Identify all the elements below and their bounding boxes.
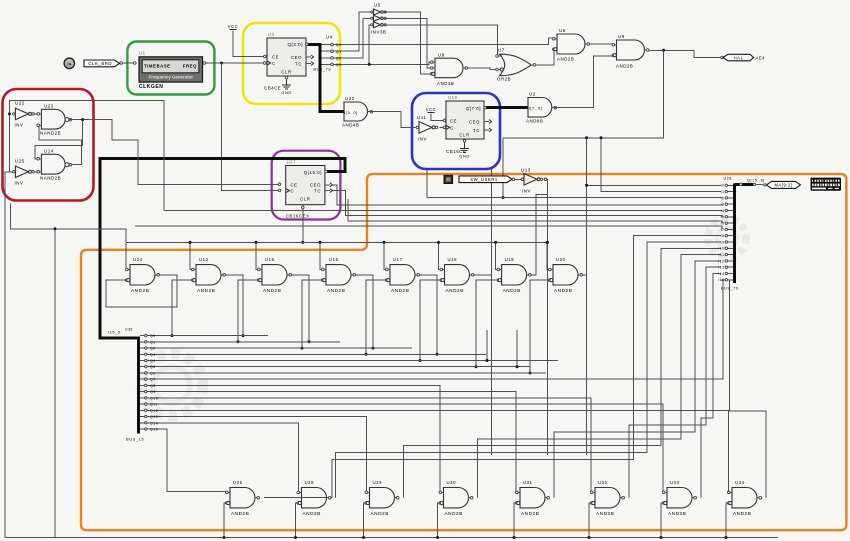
svg-text:Q0: Q0 <box>336 43 342 47</box>
svg-text:VCC: VCC <box>426 107 437 112</box>
svg-text:AND2B: AND2B <box>131 288 149 293</box>
wire U18 output to long vertical <box>473 274 492 276</box>
wire thick bus U10 Q[7:0] to U2 input <box>484 106 528 109</box>
bus tap block U35 BUS_15 left column <box>137 336 140 433</box>
svg-text:Q8: Q8 <box>150 384 156 388</box>
svg-text:Q7: Q7 <box>150 378 156 382</box>
ground symbol for U10 CLR <box>464 139 466 144</box>
wire thick bus right column to MA pin <box>735 183 754 186</box>
svg-text:U9: U9 <box>618 34 625 39</box>
svg-text:U19: U19 <box>505 257 515 262</box>
svg-text:U11: U11 <box>417 115 426 120</box>
nand-gate U14 NAND2B <box>41 154 65 174</box>
svg-text:U30: U30 <box>447 480 457 485</box>
svg-text:AND2B: AND2B <box>263 288 281 293</box>
middle AND gate row <box>126 265 160 285</box>
wire clock junction down to U27 C input <box>222 63 280 190</box>
wire U7 output to U6 input 2 <box>536 49 556 65</box>
svg-text:U32: U32 <box>598 480 608 485</box>
svg-text:Frequency Generator: Frequency Generator <box>149 75 194 80</box>
wire feeder down to bus tap I0 <box>587 138 721 186</box>
svg-text:U35: U35 <box>125 328 133 332</box>
svg-text:U14: U14 <box>44 149 54 154</box>
wire thick bus tap spine U4 down to U32 AND4B input <box>320 43 344 112</box>
wire U25 output to U14 input 2 <box>33 171 38 173</box>
wire U19 output to midband L5 <box>530 195 548 275</box>
svg-text:INV3B: INV3B <box>371 30 386 35</box>
wire inverted clock vertical to bottom rail <box>54 229 56 538</box>
svg-text:AND2B: AND2B <box>446 288 464 293</box>
svg-text:CE: CE <box>450 118 457 123</box>
svg-text:I7: I7 <box>721 228 725 232</box>
svg-text:U28: U28 <box>724 177 732 181</box>
wire Q2 line <box>147 347 412 349</box>
svg-text:Q15: Q15 <box>150 427 158 431</box>
svg-text:Q4: Q4 <box>150 359 156 363</box>
svg-text:AND2B: AND2B <box>327 288 345 293</box>
wire inverter U5a output to U8 input 3 <box>390 12 431 74</box>
wire clock from CLK_BRD pin to U1 <box>120 62 135 64</box>
orange highlight box (register array) <box>81 174 846 530</box>
inverter U13 INV <box>521 174 543 186</box>
svg-text:CLKGEN: CLKGEN <box>139 84 163 90</box>
wire midband line L5 <box>348 199 722 223</box>
svg-text:NAND2B: NAND2B <box>40 131 61 136</box>
wire U20 output to long vertical <box>581 274 586 276</box>
svg-text:Q2: Q2 <box>336 57 342 61</box>
or-gate U7 OR2B <box>500 54 532 75</box>
svg-text:AND2B: AND2B <box>503 288 521 293</box>
svg-text:CLK_BRD: CLK_BRD <box>88 61 112 66</box>
svg-text:U31: U31 <box>523 480 533 485</box>
svg-text:U33: U33 <box>670 480 680 485</box>
wire bus tap Q0 to U6 input <box>334 38 556 45</box>
svg-text:AND2B: AND2B <box>733 511 751 516</box>
wire feeder down to bus tap I1 <box>601 138 721 192</box>
svg-text:U23: U23 <box>44 104 54 109</box>
wire rail drops to middle gate clock inputs <box>125 242 128 269</box>
wire midband line L3 to tap I4 <box>164 209 722 211</box>
wire long vertical x=587 lower part <box>586 185 588 455</box>
wire feedback loop of middle gate U24 <box>106 275 177 307</box>
wire inverter U11 output to U10 C <box>440 126 445 128</box>
svg-text:I[7..0]: I[7..0] <box>529 106 543 111</box>
svg-text:Q[7:0]: Q[7:0] <box>466 106 481 111</box>
wire bottom clock rail <box>5 537 778 539</box>
svg-text:Q5: Q5 <box>150 365 156 369</box>
svg-text:CLR: CLR <box>459 133 469 138</box>
svg-text:Q11: Q11 <box>150 403 158 407</box>
wire clock rail for middle AND gates <box>126 241 548 243</box>
counter U27 CB16CEX <box>286 166 325 205</box>
wire inverter U5b output to U8 input 2 <box>390 18 431 68</box>
and-gate U2 AND8B reduction with bus input <box>528 98 552 118</box>
svg-text:Q10: Q10 <box>150 396 158 400</box>
svg-text:AND2B: AND2B <box>371 511 389 516</box>
svg-text:AND2B: AND2B <box>596 511 614 516</box>
wire risers to U18 U19 U20 second inputs <box>420 280 441 360</box>
ground symbol for U3 CLR <box>286 76 288 80</box>
svg-text:AE4: AE4 <box>756 55 766 60</box>
wire Q15 line to U26 input <box>147 429 227 492</box>
svg-text:AND2B: AND2B <box>445 511 463 516</box>
wire U23 output staircase to U27 CE <box>73 120 280 185</box>
purple highlight box (CB16CEX counter) <box>272 151 341 220</box>
svg-text:GND: GND <box>459 154 470 159</box>
wire left vertical net A to bottom rail <box>5 172 10 538</box>
svg-text:AND2B: AND2B <box>521 511 539 516</box>
svg-text:AND4B: AND4B <box>342 123 359 128</box>
svg-text:CB16CEX: CB16CEX <box>286 213 310 218</box>
svg-text:I12: I12 <box>718 259 724 263</box>
output pin HA1 with location AE4 <box>723 54 754 61</box>
svg-text:U16: U16 <box>265 257 275 262</box>
wire bus tap Q2 to inverter U5b <box>334 18 371 58</box>
svg-text:INV: INV <box>15 123 24 128</box>
svg-text:Q[3:0]: Q[3:0] <box>287 42 303 47</box>
svg-text:I9: I9 <box>721 240 725 244</box>
svg-text:CE: CE <box>272 54 279 59</box>
wire U8 output to U7 input 2 <box>466 68 497 70</box>
wire Q1 line <box>147 341 340 343</box>
wire bottom rail risers to gate clock inputs <box>224 503 227 538</box>
svg-text:C: C <box>450 125 454 130</box>
svg-text:U12: U12 <box>199 257 209 262</box>
svg-text:U10: U10 <box>448 95 458 100</box>
svg-text:I8: I8 <box>721 234 725 238</box>
svg-text:U13: U13 <box>521 168 531 173</box>
wire long vertical x=492 <box>491 169 493 455</box>
svg-text:U18: U18 <box>448 257 458 262</box>
svg-text:I1: I1 <box>721 190 725 194</box>
svg-text:Q14: Q14 <box>150 421 158 425</box>
svg-text:Q0: Q0 <box>150 334 156 338</box>
svg-text:AND3B: AND3B <box>437 81 454 86</box>
svg-text:NAND2B: NAND2B <box>40 176 61 181</box>
bottom AND gate row <box>226 488 260 508</box>
svg-text:OR2B: OR2B <box>497 77 511 82</box>
block U1 CLKGEN frequency generator <box>139 57 203 82</box>
input pin CLK_BRD <box>84 60 120 67</box>
svg-text:Q3: Q3 <box>150 353 156 357</box>
wire Q11 line to U33 input <box>147 404 664 492</box>
blue highlight box (CB16CE counter) <box>412 93 500 169</box>
wire U14 cross-couple to U23 input 2 <box>38 125 81 164</box>
wire middle gates U12 U16 U15 U17 output and input ties to Q lines <box>224 275 243 336</box>
svg-text:C: C <box>291 188 295 193</box>
svg-text:BUS_7S: BUS_7S <box>721 287 739 291</box>
wire bus tap Q3 to inverter U5c and U8 input <box>334 62 432 64</box>
svg-text:U22: U22 <box>15 101 25 106</box>
wire Q5 line <box>147 366 530 368</box>
svg-text:BUS_15: BUS_15 <box>126 437 144 442</box>
svg-text:Q[15..8]: Q[15..8] <box>747 178 765 182</box>
svg-text:INV: INV <box>418 137 427 142</box>
wire Q13 line to U29 input <box>147 417 367 492</box>
svg-text:TC: TC <box>473 128 480 133</box>
svg-text:I15: I15 <box>718 278 724 282</box>
wire NAND latch: U22 output to U23 input 1 <box>33 113 38 115</box>
svg-text:FREQ: FREQ <box>183 63 197 68</box>
and-gate U8 AND3B2 <box>431 58 468 77</box>
wire Q4 line <box>147 360 558 362</box>
svg-text:Q[15:0]: Q[15:0] <box>304 170 322 175</box>
wire midband line L2 from U27 CEO <box>332 185 723 205</box>
wire thick bus U3 Q[3:0] to tap block U4 <box>306 43 320 46</box>
svg-text:Q13: Q13 <box>150 415 158 419</box>
svg-text:AND2B: AND2B <box>616 64 633 69</box>
wire U27 CLR down to rail <box>302 205 304 242</box>
svg-text:I11: I11 <box>719 253 725 257</box>
svg-text:VCC: VCC <box>228 24 239 29</box>
svg-text:MA[9:2]: MA[9:2] <box>775 183 793 188</box>
svg-text:CB4CE: CB4CE <box>264 86 281 91</box>
svg-text:U8: U8 <box>438 53 445 58</box>
svg-text:U17: U17 <box>393 257 403 262</box>
svg-text:CLR: CLR <box>281 70 291 75</box>
counter U10 CB16CE <box>446 101 484 139</box>
svg-text:CEO: CEO <box>291 55 302 60</box>
svg-text:U15: U15 <box>329 257 339 262</box>
svg-text:U1: U1 <box>139 51 146 56</box>
svg-text:TC: TC <box>295 61 302 66</box>
wire U6 output to U9 input 1 <box>590 43 614 45</box>
svg-text:U25: U25 <box>15 159 25 164</box>
svg-text:CEO: CEO <box>310 182 321 187</box>
svg-text:Q3: Q3 <box>336 63 342 67</box>
svg-text:I2: I2 <box>721 196 725 200</box>
wire VCC to U3 CE <box>233 31 265 57</box>
svg-text:HA1: HA1 <box>734 55 744 60</box>
and-gate U9 AND2B1 <box>612 40 649 60</box>
svg-text:U29: U29 <box>373 480 383 485</box>
wire latch set line to U23 input 1 <box>10 100 164 114</box>
svg-text:CLR: CLR <box>300 196 310 201</box>
svg-text:I0: I0 <box>721 184 725 188</box>
svg-text:TIMEBASE: TIMEBASE <box>144 63 171 68</box>
svg-text:AND2B: AND2B <box>557 57 574 62</box>
red highlight box (NAND latch) <box>3 89 94 201</box>
svg-text:C: C <box>272 61 276 66</box>
svg-text:I14: I14 <box>718 272 724 276</box>
wire Q0 line <box>147 335 268 337</box>
wire U23 cross-couple to U14 input 1 <box>35 120 83 159</box>
svg-text:JA: JA <box>67 62 72 66</box>
svg-text:Q2: Q2 <box>150 347 156 351</box>
svg-text:I[3..0]: I[3..0] <box>344 110 358 115</box>
wire Q12 line to U34 input <box>147 410 729 491</box>
svg-text:U3: U3 <box>268 32 275 37</box>
bus tap block U28 BUS_75 right column <box>733 184 736 284</box>
wire Q9 line to U31 input <box>147 392 517 492</box>
svg-text:Q1: Q1 <box>150 340 156 344</box>
wire bus tap Q1 to inverter U5a <box>334 12 371 51</box>
wire Q3 line <box>147 353 486 355</box>
svg-text:INV: INV <box>15 181 24 186</box>
svg-text:U7: U7 <box>498 48 505 53</box>
wire U32 output to inverter U11 <box>375 112 418 128</box>
input pin SW_USER1 <box>459 176 512 183</box>
spot icon JA <box>64 58 74 68</box>
wire bottom gate outputs staircases to right bus taps <box>264 236 721 498</box>
svg-text:BUS_7S: BUS_7S <box>314 68 332 72</box>
green highlight box (CLKGEN) <box>127 42 214 95</box>
svg-text:U32: U32 <box>345 96 355 101</box>
decorative <box>141 219 746 416</box>
inverter U11 INV <box>416 122 438 133</box>
wire Q8 line to U30 input <box>147 385 441 491</box>
wire thick bus U27 Q[15:0] to bus tap block U35 <box>100 159 345 338</box>
svg-text:AND2B: AND2B <box>554 288 572 293</box>
svg-text:I5: I5 <box>721 215 725 219</box>
svg-text:GND: GND <box>281 90 292 95</box>
LED display annotation <box>809 177 843 193</box>
svg-text:SW_USER1: SW_USER1 <box>470 177 498 182</box>
wire U2 output up to U9 input 2 <box>559 56 614 108</box>
inverter U22 INV <box>13 108 35 120</box>
svg-text:U26: U26 <box>233 480 243 485</box>
svg-text:U24: U24 <box>133 257 143 262</box>
wire midband line L6 <box>135 226 722 229</box>
svg-text:U2: U2 <box>529 92 536 97</box>
svg-text:U34: U34 <box>735 480 745 485</box>
svg-text:INV: INV <box>522 189 531 194</box>
wire U9 output junction down and left <box>503 50 664 138</box>
wire midband line L4 from U27 TC <box>332 191 723 217</box>
svg-text:I15_0: I15_0 <box>108 330 121 335</box>
svg-text:U28: U28 <box>305 480 315 485</box>
svg-text:U5: U5 <box>374 3 381 8</box>
and-gate U6 AND2B1 <box>553 34 590 54</box>
svg-text:AND2B: AND2B <box>231 511 249 516</box>
svg-text:U4: U4 <box>326 35 333 40</box>
wire Q7 line to bus tap I15 <box>147 280 723 379</box>
svg-text:CE: CE <box>291 182 298 187</box>
svg-text:AND2B: AND2B <box>668 511 686 516</box>
svg-text:Q9: Q9 <box>150 390 156 394</box>
svg-text:I13: I13 <box>718 266 724 270</box>
svg-text:I4: I4 <box>721 209 725 213</box>
wire U9 output to HA1 output pin <box>648 50 722 57</box>
wire SW_USER inverter output to rail <box>546 179 548 455</box>
output pin MA[9:2] <box>767 181 801 188</box>
wire Q6 line <box>147 372 546 374</box>
nand-gate U23 NAND2B <box>41 109 65 129</box>
svg-text:U20: U20 <box>556 257 566 262</box>
wire latch line down to midband L3 <box>163 100 165 210</box>
wire VCC2 to U10 CE <box>431 114 445 121</box>
and-gate U32 AND4B reduction with bus input <box>344 102 368 121</box>
switch icon for SW_USER1 <box>444 175 453 183</box>
yellow highlight box (CB4CE counter) <box>243 23 340 104</box>
wire inverter U5c output to U7 input 1 <box>390 25 500 56</box>
svg-text:I10: I10 <box>718 247 724 251</box>
svg-text:U6: U6 <box>559 28 566 33</box>
svg-text:Q12: Q12 <box>150 409 158 413</box>
svg-text:I6: I6 <box>721 222 725 226</box>
svg-text:AND2B: AND2B <box>197 288 215 293</box>
wire Q10 line to U32 input <box>147 398 592 492</box>
svg-text:Q1: Q1 <box>336 50 342 54</box>
wire U1 FREQ output to U3 C input <box>206 62 265 64</box>
wire red box to middle rail <box>11 204 126 243</box>
svg-text:AND2B: AND2B <box>391 288 409 293</box>
svg-text:Q6: Q6 <box>150 371 156 375</box>
counter U3 CB4CE <box>267 38 306 76</box>
inverter U25 INV <box>13 166 35 178</box>
svg-text:CEO: CEO <box>469 119 480 124</box>
wire latch vertical to U25 input <box>10 114 14 172</box>
wire midband line L1 <box>427 169 722 198</box>
svg-text:I3: I3 <box>721 203 725 207</box>
wire Q14 line to U28 input <box>147 423 299 492</box>
wire junction down to midband line L1 <box>502 138 504 198</box>
svg-text:AND2B: AND2B <box>303 511 321 516</box>
svg-text:U27: U27 <box>287 160 297 165</box>
svg-text:TC: TC <box>314 188 321 193</box>
svg-text:AND8B: AND8B <box>526 119 543 124</box>
